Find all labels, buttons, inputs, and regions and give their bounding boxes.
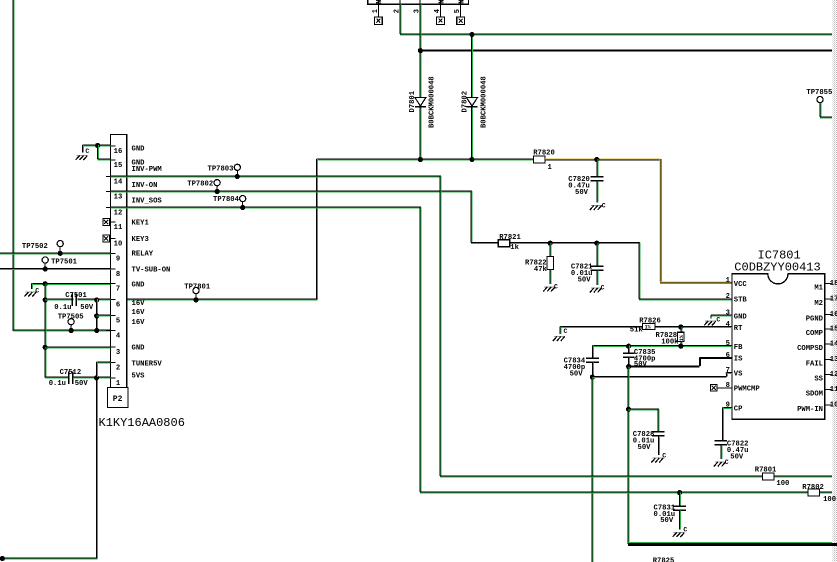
svg-text:50V: 50V <box>75 380 89 388</box>
svg-text:16V: 16V <box>132 309 146 317</box>
P2 pin 13 INV-ON <box>106 191 116 193</box>
no-connect KEY3 <box>103 235 110 242</box>
ground R7822 <box>544 286 555 288</box>
node GND/pin3 junction <box>43 345 48 350</box>
svg-text:R7820: R7820 <box>533 150 555 158</box>
wire: vertical below P2 to bottom net <box>96 378 98 558</box>
svg-text:14: 14 <box>114 179 123 187</box>
svg-text:C7501: C7501 <box>65 292 87 300</box>
svg-text:VCC: VCC <box>734 281 748 289</box>
node C7821 top junction <box>594 241 599 246</box>
svg-text:GND: GND <box>132 281 146 289</box>
svg-text:C: C <box>662 453 666 460</box>
resistor R7822 47k <box>549 243 551 256</box>
svg-text:8: 8 <box>116 271 120 279</box>
svg-text:1: 1 <box>548 164 553 172</box>
svg-text:51k: 51k <box>630 327 644 335</box>
IC7801 pin 12 SS <box>825 374 832 376</box>
svg-text:2: 2 <box>116 365 120 373</box>
svg-text:K1KY16AA0806: K1KY16AA0806 <box>99 416 185 430</box>
junction D7802 top <box>469 32 474 37</box>
svg-text:C7512: C7512 <box>60 369 82 377</box>
wire: pin5 16V stub <box>97 314 111 316</box>
node 16V pin5 junction <box>94 313 99 318</box>
svg-text:INV-PWM: INV-PWM <box>132 166 162 174</box>
ground RT <box>559 326 561 334</box>
svg-text:GND: GND <box>132 145 146 153</box>
node FB/R7828 junction <box>678 344 683 349</box>
svg-text:13: 13 <box>114 194 123 202</box>
svg-text:100: 100 <box>776 480 789 488</box>
svg-text:CP: CP <box>734 405 743 413</box>
node C7831 junction <box>677 490 682 495</box>
svg-text:50V: 50V <box>578 277 592 285</box>
svg-text:18: 18 <box>830 280 837 288</box>
P2 pin 15 GND <box>106 159 116 161</box>
IC7801 pin 2 STB <box>726 298 732 300</box>
P2 pin 8 TV-SUB-ON <box>106 268 116 270</box>
svg-text:C: C <box>725 459 729 466</box>
node 5VS/TUNER5V junction <box>94 375 99 380</box>
node IS/C7835 junction <box>626 364 631 369</box>
svg-text:12: 12 <box>830 371 837 379</box>
svg-text:14: 14 <box>830 341 837 349</box>
svg-text:TP7855: TP7855 <box>806 89 832 97</box>
svg-text:13: 13 <box>830 356 837 364</box>
svg-text:D7801: D7801 <box>409 90 417 112</box>
P2 pin 9 RELAY <box>106 252 116 254</box>
no-connect square pin 1 <box>377 4 379 17</box>
svg-text:10: 10 <box>114 241 123 249</box>
svg-text:COMP: COMP <box>806 330 824 338</box>
capacitor C7831 0.01u 50V <box>679 493 681 507</box>
wire: C7834 column to bottom edge <box>591 377 593 562</box>
wire: GND vertical x=45 <box>44 283 46 377</box>
wire: 16V riser from pin6 wire <box>315 159 317 299</box>
svg-text:100: 100 <box>823 496 836 504</box>
svg-text:9: 9 <box>116 255 120 263</box>
svg-text:FB: FB <box>734 344 743 352</box>
P2 pin 2 TUNER5V <box>106 362 116 364</box>
capacitor C7820 0.47u 50V <box>596 159 598 177</box>
node FB/C7835 junction <box>626 344 631 349</box>
svg-text:N: N <box>438 0 446 4</box>
svg-text:SDOM: SDOM <box>806 391 823 399</box>
ground pin16 <box>77 155 88 157</box>
svg-text:B0BCKM000048: B0BCKM000048 <box>428 76 436 128</box>
wire: 16V rail y=159 <box>316 158 533 160</box>
resistor R7821 1k <box>498 240 510 247</box>
svg-text:GND: GND <box>132 345 146 353</box>
top connector pin 1 <box>377 0 379 4</box>
wire: top pin 2 down <box>399 4 401 34</box>
svg-text:C: C <box>85 148 89 155</box>
svg-text:N: N <box>459 0 467 4</box>
IC7801 pin 14 COMPSD <box>825 343 832 345</box>
svg-text:15: 15 <box>114 162 123 170</box>
svg-text:17: 17 <box>830 296 837 304</box>
svg-text:1: 1 <box>116 380 121 388</box>
svg-text:C: C <box>683 527 687 534</box>
wire: left 16V bus vertical <box>12 0 14 331</box>
capacitor C7821 0.01u 50V <box>596 243 598 266</box>
P2 pin 7 GND <box>106 283 116 285</box>
node pin7 GND junction <box>43 281 48 286</box>
wire: top pin 3 / D7801 anode column <box>419 4 421 159</box>
svg-text:C: C <box>35 287 39 294</box>
svg-text:FAIL: FAIL <box>806 360 823 368</box>
node VS/C7834 junction <box>590 375 595 380</box>
IC7801 pin 7 VS <box>726 372 732 374</box>
P2 pin 3 GND <box>106 346 116 348</box>
svg-text:TP7804: TP7804 <box>213 196 240 204</box>
svg-text:C0DBZYY00413: C0DBZYY00413 <box>734 260 820 274</box>
wire: branch to C7828 <box>628 408 659 410</box>
svg-text:C: C <box>601 284 605 291</box>
svg-text:R7821: R7821 <box>499 234 521 242</box>
wire: INV_SOS vertical <box>419 207 421 492</box>
wire: RT net <box>560 325 681 327</box>
svg-text:STB: STB <box>734 297 748 305</box>
IC7801 pin 16 PGND <box>825 314 832 316</box>
svg-text:D7802: D7802 <box>461 91 469 113</box>
svg-text:B0BCKM000048: B0BCKM000048 <box>481 76 489 128</box>
top connector pin 2 <box>399 0 401 4</box>
svg-text:0.1u: 0.1u <box>49 380 66 388</box>
resistor R7826 51k 1% <box>643 324 656 330</box>
IC7801 pin 10 PWM-IN <box>825 404 832 406</box>
junction pin3 / black bus <box>418 48 423 53</box>
resistor R7828 100k <box>680 327 682 332</box>
IC7801 pin 8 PWMCMP <box>726 387 732 389</box>
IC7801 pin 9 CP <box>726 407 732 409</box>
svg-text:1: 1 <box>726 277 731 285</box>
svg-text:R7801: R7801 <box>755 466 777 474</box>
svg-text:COMPSD: COMPSD <box>797 345 824 353</box>
wire: C7835 column down <box>627 367 629 544</box>
IC7801 pin 4 RT <box>726 326 732 328</box>
svg-text:TV-SUB-ON: TV-SUB-ON <box>132 267 171 275</box>
svg-text:11: 11 <box>114 224 123 232</box>
wire: INV_SOS pin12 <box>111 206 421 208</box>
svg-text:INV_SOS: INV_SOS <box>132 197 163 205</box>
svg-text:16: 16 <box>830 311 837 319</box>
wire: TV-SUB-ON from left edge <box>0 268 111 270</box>
svg-text:50V: 50V <box>575 189 589 197</box>
wire: pin2 TUNER5V jog <box>97 361 111 363</box>
wire: 16V feed to connector pin 4 <box>13 329 111 331</box>
capacitor C7834 4700p 50V <box>591 346 593 359</box>
connector P2 lower box <box>108 388 128 408</box>
svg-text:C: C <box>716 316 720 323</box>
node R7822 top junction <box>548 241 553 246</box>
junction D7801 bottom <box>418 157 423 162</box>
IC7801 pin 3 GND <box>726 315 732 317</box>
wire: pin15 tie <box>97 145 99 159</box>
svg-text:50V: 50V <box>660 517 674 525</box>
connector J (top, pins 1-5) <box>368 0 469 4</box>
op-amp IC7801 C0DBZYY00413 body <box>732 274 825 419</box>
svg-text:50V: 50V <box>80 304 94 312</box>
svg-text:6: 6 <box>116 302 120 310</box>
diode D7801 B0BCKM000048 <box>415 98 426 107</box>
P2 pin 12 INV_SOS <box>106 207 116 209</box>
junction C7820 top <box>594 157 599 162</box>
resistor R7802 100 <box>808 489 820 496</box>
svg-text:R7826: R7826 <box>639 318 661 326</box>
wire: 16V pins tie vertical <box>96 299 98 330</box>
P2 pin 11 KEY1 <box>106 221 116 223</box>
resistor R7801 100 <box>762 473 774 480</box>
svg-text:10: 10 <box>830 401 837 409</box>
top connector pin 3 <box>419 0 421 4</box>
wire: D7802 column <box>471 34 473 159</box>
no-connect KEY1 <box>103 219 110 226</box>
node 16V pin6 junction <box>94 297 99 302</box>
wire: INV-PWM pin14 <box>111 175 441 177</box>
svg-text:1%: 1% <box>679 335 685 341</box>
ground C7820 <box>591 205 602 207</box>
svg-text:P2: P2 <box>113 395 123 404</box>
svg-text:TP7502: TP7502 <box>22 243 48 251</box>
svg-text:2: 2 <box>726 293 730 301</box>
svg-text:11: 11 <box>830 386 837 394</box>
no-connect square pin 4 <box>440 4 442 17</box>
ground C7822 <box>715 461 726 463</box>
wire: R7821 to STB corner <box>510 242 640 244</box>
svg-text:R7825: R7825 <box>653 557 675 562</box>
connector P2 body <box>111 135 127 388</box>
svg-text:50V: 50V <box>730 454 744 462</box>
wire: INV-PWM vertical <box>439 176 441 476</box>
wire: pin6 16V horizontal <box>127 298 317 300</box>
node GND/C7501 junction <box>43 297 48 302</box>
capacitor C7512 0.1u 50V <box>45 376 69 378</box>
svg-text:GND: GND <box>734 314 748 322</box>
ground C7831 <box>674 532 685 534</box>
svg-text:16: 16 <box>114 148 123 156</box>
svg-text:IS: IS <box>734 356 743 364</box>
svg-text:M1: M1 <box>814 285 823 293</box>
P2 pin 5 16V <box>106 315 116 317</box>
svg-text:5: 5 <box>116 318 120 326</box>
junction D7802 bottom <box>469 157 474 162</box>
svg-text:16V: 16V <box>132 300 146 308</box>
capacitor C7501 0.1u 50V <box>45 298 73 300</box>
wire: bottom black bus <box>628 542 832 544</box>
ground IC pin3 <box>711 314 732 316</box>
P2 pin 14 INV-PWM <box>106 176 116 178</box>
svg-text:50V: 50V <box>570 371 584 379</box>
ground C7828 <box>652 457 663 459</box>
wire: pin7 GND <box>32 282 111 284</box>
svg-text:0.1u: 0.1u <box>54 304 71 312</box>
svg-text:RELAY: RELAY <box>132 251 154 259</box>
top connector pin 5 <box>460 0 462 4</box>
P2 pin 10 KEY3 <box>106 238 116 240</box>
wire: INV-ON to R7821 <box>471 242 498 244</box>
svg-text:47k: 47k <box>534 266 548 274</box>
IC7801 pin 15 COMP <box>825 328 832 330</box>
svg-text:SS: SS <box>814 376 823 384</box>
wire: CP to C7822 <box>722 407 732 409</box>
P2 pin 1 5VS <box>106 377 116 379</box>
IC7801 pin 18 M1 <box>825 283 832 285</box>
ground pin7 <box>26 291 37 293</box>
svg-text:12: 12 <box>114 210 123 218</box>
wire: R7802 net (INV_SOS) <box>420 491 832 493</box>
svg-text:C: C <box>602 203 606 210</box>
wire: INV-ON pin13 <box>111 190 473 192</box>
P2 pin 4 16V <box>106 330 116 332</box>
wire: bottom-left horizontal <box>0 557 98 559</box>
junction bottom left <box>0 556 5 561</box>
wire: VS net <box>592 376 726 378</box>
node 16V pin4 junction <box>94 328 99 333</box>
svg-text:RT: RT <box>734 325 743 333</box>
wire: pin3 GND <box>45 346 110 348</box>
wire: net from pin 2 to right edge (green) <box>400 33 832 35</box>
node RT/R7828 junction <box>678 324 683 329</box>
IC7801 pin 17 M2 <box>825 298 832 300</box>
svg-text:3: 3 <box>116 349 120 357</box>
P2 pin 6 16V <box>106 299 116 301</box>
svg-text:PWM-IN: PWM-IN <box>797 406 823 414</box>
svg-text:INV-ON: INV-ON <box>132 182 158 190</box>
svg-text:VS: VS <box>734 371 743 379</box>
wire: INV-ON vertical <box>470 191 472 243</box>
svg-text:50V: 50V <box>638 444 652 452</box>
svg-text:7: 7 <box>116 286 120 294</box>
svg-text:16V: 16V <box>132 319 146 327</box>
svg-text:1k: 1k <box>510 244 519 252</box>
svg-text:PGND: PGND <box>806 316 824 324</box>
IC7801 pin 11 SDOM <box>825 389 832 391</box>
svg-text:TP7803: TP7803 <box>208 165 234 173</box>
capacitor C7835 4700p 50V <box>628 346 630 354</box>
svg-text:KEY1: KEY1 <box>132 220 150 228</box>
top connector pin 4 <box>440 0 442 4</box>
svg-text:TP7501: TP7501 <box>51 259 78 267</box>
svg-text:TP7802: TP7802 <box>187 181 213 189</box>
svg-text:R7802: R7802 <box>802 484 824 492</box>
wire: RELAY from left edge <box>0 252 111 254</box>
capacitor C7828 0.01u 50V <box>652 431 665 433</box>
svg-text:8: 8 <box>726 382 730 390</box>
wire: pin16 GND to ground <box>83 144 111 146</box>
svg-text:KEY3: KEY3 <box>132 236 149 244</box>
wire: yellow VCC feed <box>545 158 660 160</box>
svg-text:4: 4 <box>116 333 121 341</box>
IC7801 pin 1 VCC <box>726 282 732 284</box>
svg-text:PWMCMP: PWMCMP <box>734 386 761 394</box>
wire: IS net (black) <box>629 365 700 367</box>
svg-text:M2: M2 <box>814 300 823 308</box>
resistor R7820 value 1 <box>533 156 545 163</box>
no-connect IC pin8 PWMCMP <box>718 387 732 389</box>
wire: FB net <box>592 345 732 347</box>
diode D7802 B0BCKM000048 <box>467 98 478 107</box>
svg-text:TUNER5V: TUNER5V <box>132 361 163 369</box>
node C7828 branch junction <box>626 407 631 412</box>
svg-text:5VS: 5VS <box>132 373 146 381</box>
svg-text:50V: 50V <box>634 361 648 369</box>
svg-text:C: C <box>564 328 568 335</box>
capacitor C7822 0.47u 50V <box>714 440 727 442</box>
ground C7821 <box>591 287 602 289</box>
svg-text:N: N <box>376 0 384 4</box>
svg-text:C: C <box>554 283 558 290</box>
wire: black bus to right edge <box>420 49 832 51</box>
no-connect square pin 5 <box>460 4 462 17</box>
IC7801 pin 13 FAIL <box>825 358 832 360</box>
P2 pin 16 GND <box>106 145 116 147</box>
IC7801 pin 5 FB <box>726 345 732 347</box>
svg-text:15: 15 <box>830 326 837 334</box>
IC7801 pin 6 IS <box>726 357 732 359</box>
wire: R7801 net (INV-PWM) <box>440 475 832 477</box>
